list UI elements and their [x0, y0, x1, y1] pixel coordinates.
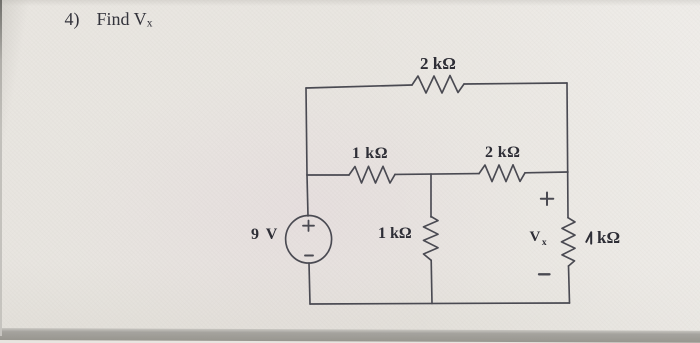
label 2 kOhm mid-right: [485, 144, 520, 162]
minus mark Vx: [539, 273, 550, 275]
voltage source V1 9V: [286, 216, 332, 264]
plus mark of source: [303, 221, 314, 232]
resistor R right 4k: [562, 218, 576, 266]
label 1 kOhm mid-left: [352, 145, 388, 163]
wire middle center: [395, 173, 479, 176]
resistor R mid 1k vertical: [424, 217, 439, 261]
minus mark of source: [305, 255, 313, 257]
label 1 kOhm mid vertical: [378, 225, 412, 243]
wire middle right: [525, 171, 568, 174]
wire right vertical lower: [569, 266, 570, 303]
resistor R mid-left 1k: [349, 166, 395, 183]
wire middle vertical lower: [430, 260, 433, 303]
wire left vertical upper: [306, 88, 307, 175]
wire top-right: [464, 83, 567, 84]
wire middle vertical upper: [430, 174, 432, 217]
plus mark Vx: [541, 193, 554, 206]
wire top-left: [306, 85, 412, 88]
label Vx: [530, 229, 547, 248]
resistor R mid-right 2k: [479, 165, 525, 182]
wire bottom: [310, 303, 570, 304]
label kOhm of 4k: [597, 228, 620, 248]
wire right vertical upper: [567, 83, 568, 218]
digit 4 of 4k label: [586, 232, 591, 243]
wire left vertical lower: [307, 175, 308, 216]
label 9 V: [251, 226, 277, 244]
resistor R top 2k: [412, 76, 464, 94]
label 2 kOhm top: [420, 54, 456, 74]
wire source to bottom: [309, 263, 310, 304]
wire middle left: [307, 174, 349, 176]
